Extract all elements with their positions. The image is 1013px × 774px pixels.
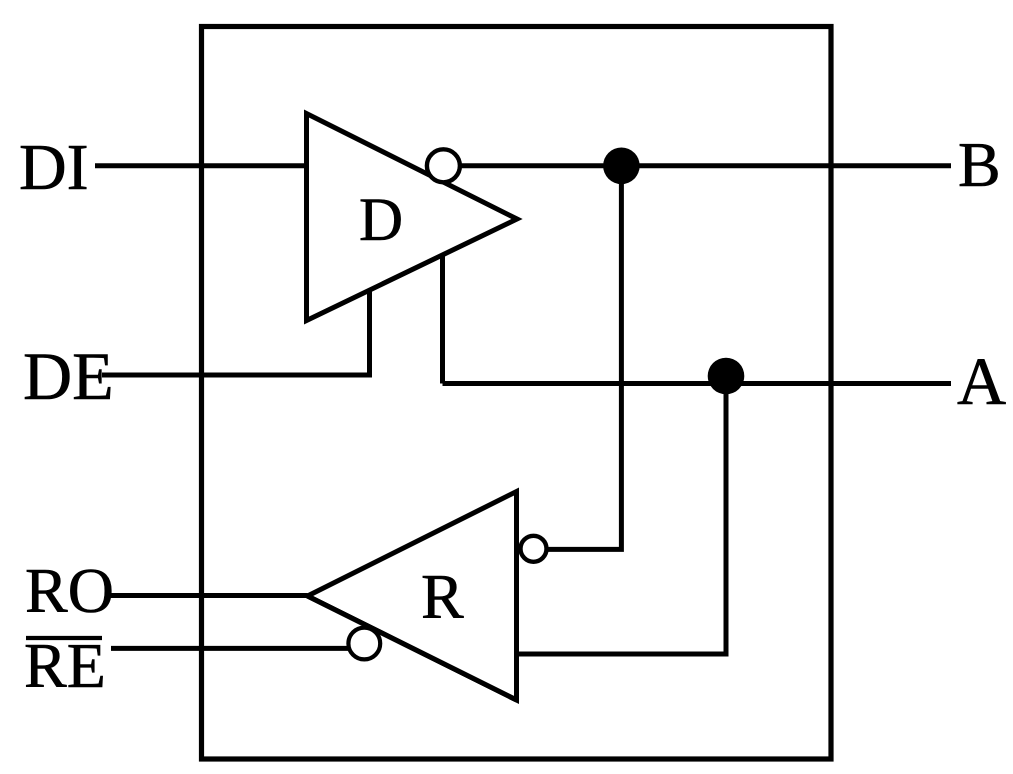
svg-text:D: D bbox=[359, 187, 403, 254]
receiver bottom edge overlay bbox=[308, 596, 517, 700]
receiver R triangle bbox=[308, 492, 517, 701]
wire DE to driver enable bbox=[102, 289, 370, 375]
receiver enable bubble bbox=[348, 628, 380, 660]
svg-text:DI: DI bbox=[19, 131, 89, 204]
wire A output line bbox=[443, 381, 952, 386]
wire RE receiver enable bbox=[111, 646, 349, 651]
svg-text:DE: DE bbox=[23, 338, 114, 414]
driver D triangle bbox=[307, 114, 518, 321]
junction dot on A line bbox=[708, 358, 745, 395]
receiver inverting input bubble bbox=[521, 536, 547, 562]
wire B junction down to receiver inverting input bbox=[547, 166, 622, 550]
svg-text:RO: RO bbox=[25, 555, 114, 626]
svg-text:R: R bbox=[421, 561, 464, 632]
svg-text:A: A bbox=[957, 343, 1006, 419]
overline over RE bbox=[26, 636, 102, 640]
driver inverting output bubble bbox=[427, 149, 460, 182]
wire B output line bbox=[460, 163, 951, 168]
wire A junction down to receiver input bbox=[517, 384, 727, 655]
svg-text:RE: RE bbox=[24, 630, 106, 701]
wire DI input bbox=[95, 163, 307, 168]
junction dot on B line bbox=[603, 148, 640, 185]
IC boundary box bbox=[202, 27, 832, 760]
wire driver output to A line bbox=[440, 255, 445, 384]
svg-text:B: B bbox=[958, 129, 1001, 200]
wire RO receiver output bbox=[111, 593, 308, 598]
